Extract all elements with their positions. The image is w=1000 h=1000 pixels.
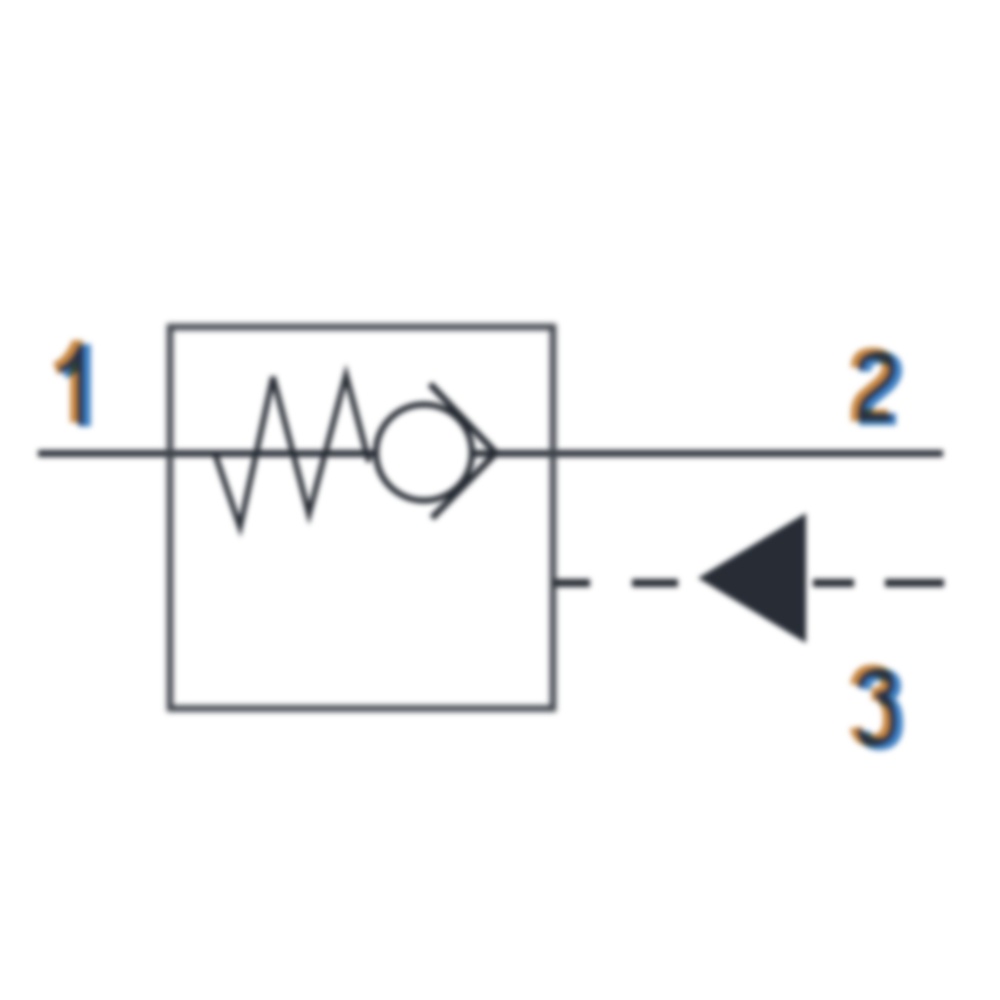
dash 3 — [813, 579, 854, 587]
dash 2 — [632, 579, 678, 587]
dash 4 — [885, 579, 944, 587]
valve body envelope box — [170, 327, 553, 709]
check valve seat (chevron) — [430, 384, 496, 518]
wire: pilot dashed line, dash 1 — [554, 579, 590, 587]
pilot arrow (solid triangle) — [698, 513, 806, 643]
port label 3 (anaglyph doubled orange/blue) — [856, 671, 897, 745]
check valve ball (circle) — [376, 405, 472, 501]
port label 2 (anaglyph doubled orange/blue) — [857, 354, 896, 420]
spring — [214, 375, 369, 527]
port label 1 (anaglyph doubled orange/blue) — [56, 347, 85, 427]
wire: main flow line port 1 to port 2 — [38, 450, 943, 457]
